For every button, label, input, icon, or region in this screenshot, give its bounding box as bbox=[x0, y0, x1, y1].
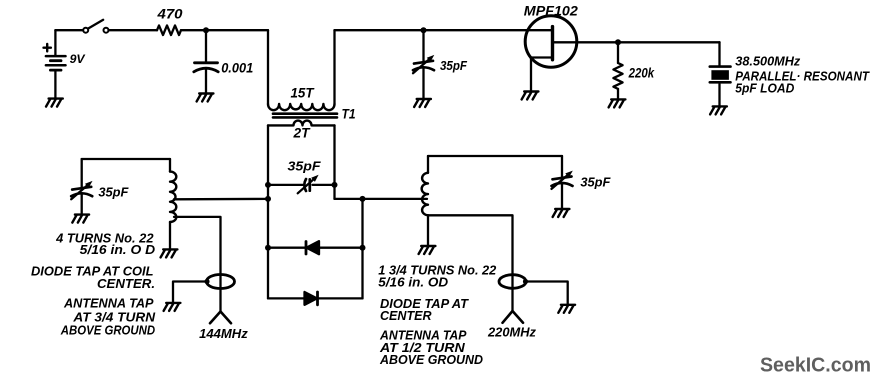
inductor L2 (220MHz coil) bbox=[422, 156, 428, 246]
wire transformer primary right lead bbox=[333, 30, 335, 104]
node dot upper-right bbox=[332, 182, 338, 188]
wire jog down bbox=[333, 185, 335, 199]
svg-text:MPF102: MPF102 bbox=[524, 3, 579, 18]
resistor R1 470 bbox=[157, 25, 181, 35]
ground (left ellipse) bbox=[164, 303, 181, 311]
svg-text:35pF: 35pF bbox=[288, 159, 322, 174]
wire antenna tap 144 bbox=[174, 217, 221, 312]
node blob (ellipse left) bbox=[204, 279, 209, 284]
antenna coupling loop (220) bbox=[499, 275, 526, 289]
node dot lower-left bbox=[265, 196, 271, 202]
wire ellipse right to ground bbox=[526, 282, 568, 305]
svg-text:38.500MHz: 38.500MHz bbox=[735, 54, 800, 69]
ground (right coil) bbox=[419, 246, 436, 254]
svg-text:220MHz: 220MHz bbox=[487, 324, 536, 339]
crystal Y1 bbox=[710, 67, 731, 107]
antenna symbol 220 bbox=[503, 311, 524, 323]
transformer T1 primary 15T winding bbox=[268, 104, 335, 110]
wire right tank top rail bbox=[428, 155, 562, 157]
ground (crystal) bbox=[710, 106, 727, 114]
svg-text:0.001: 0.001 bbox=[221, 61, 253, 76]
svg-text:5/16 in. OD: 5/16 in. OD bbox=[378, 275, 448, 290]
node blob (ellipse right) bbox=[523, 279, 528, 284]
wire top rail to gate bbox=[335, 29, 553, 31]
svg-text:2T: 2T bbox=[292, 126, 311, 141]
battery B1 9V bbox=[44, 30, 66, 98]
wire down to transformer primary left bbox=[267, 30, 269, 104]
wire left vertical down bbox=[267, 185, 269, 299]
svg-text:9V: 9V bbox=[70, 54, 86, 66]
svg-text:ABOVE GROUND: ABOVE GROUND bbox=[379, 352, 484, 367]
wire switch to resistor bbox=[109, 29, 158, 31]
node dot diode row left bbox=[265, 245, 271, 251]
wire drain rail bbox=[553, 41, 720, 43]
wire diode row 2 bbox=[268, 297, 363, 299]
ground (220k) bbox=[609, 99, 626, 107]
wire lower rail right segment (diode tap 220) bbox=[335, 198, 428, 200]
ground (source) bbox=[522, 92, 539, 100]
node junction dot (0.001) bbox=[203, 27, 209, 33]
wire ellipse left to ground bbox=[173, 282, 207, 303]
svg-text:5pF LOAD: 5pF LOAD bbox=[735, 80, 795, 95]
antenna coupling loop (144) bbox=[207, 275, 235, 289]
wire right vertical down bbox=[361, 199, 363, 299]
ground (left cap) bbox=[72, 215, 89, 223]
wire resistor to transformer corner bbox=[181, 29, 268, 31]
ground (left coil) bbox=[161, 249, 178, 257]
wire left tank top rail bbox=[82, 158, 170, 160]
variable capacitor C4 35pF (144MHz tank) bbox=[71, 159, 92, 215]
svg-text:5/16 in. O D: 5/16 in. O D bbox=[80, 242, 156, 257]
variable capacitor C2 35pF (top) bbox=[413, 30, 434, 99]
switch S1 bbox=[83, 20, 108, 33]
ground (right cap) bbox=[553, 209, 570, 217]
diode D1 bbox=[306, 241, 319, 254]
svg-text:CENTER.: CENTER. bbox=[97, 276, 155, 291]
transformer T1 core bbox=[273, 114, 337, 118]
diode D2 bbox=[305, 292, 318, 305]
inductor L1 (144MHz coil) bbox=[170, 159, 176, 249]
node junction dot (drain) bbox=[615, 39, 621, 45]
svg-text:ABOVE GROUND: ABOVE GROUND bbox=[60, 322, 156, 337]
svg-text:ANTENNA TAP: ANTENNA TAP bbox=[63, 296, 154, 311]
node junction dot (35pF top) bbox=[421, 27, 427, 33]
wire diode row 1 bbox=[268, 247, 363, 249]
antenna symbol 144 bbox=[210, 312, 231, 324]
svg-text:470: 470 bbox=[156, 7, 183, 22]
transistor Q1 MPF102 bbox=[525, 16, 577, 92]
wire secondary left side down bbox=[267, 125, 269, 184]
transformer T1 secondary 2T winding bbox=[268, 121, 335, 126]
variable capacitor C5 35pF (220MHz tank) bbox=[552, 156, 573, 209]
ground (0.001) bbox=[197, 94, 214, 102]
svg-text:35pF: 35pF bbox=[98, 185, 129, 200]
ground (35pF top) bbox=[414, 99, 431, 107]
svg-text:220k: 220k bbox=[628, 66, 656, 81]
svg-text:35pF: 35pF bbox=[440, 58, 468, 73]
svg-text:144MHz: 144MHz bbox=[199, 326, 248, 341]
wire to crystal bbox=[718, 42, 720, 65]
variable capacitor C3 35pF (middle) bbox=[298, 175, 319, 194]
resistor R2 220k bbox=[613, 42, 622, 99]
ground (battery) bbox=[46, 99, 63, 107]
wire upper tank rail right segment bbox=[313, 184, 335, 186]
svg-text:T1: T1 bbox=[342, 107, 356, 122]
svg-text:CENTER: CENTER bbox=[380, 308, 432, 323]
node dot diode row right bbox=[360, 245, 366, 251]
wire battery top to switch bbox=[55, 29, 83, 31]
svg-text:SeekIC.com: SeekIC.com bbox=[760, 355, 871, 377]
svg-text:15T: 15T bbox=[291, 86, 316, 101]
wire upper tank rail left segment bbox=[268, 184, 303, 186]
node dot lower-right bbox=[360, 196, 366, 202]
wire secondary right side down bbox=[333, 125, 335, 184]
wire antenna tap 220 bbox=[428, 215, 513, 311]
wire lower rail left segment (diode tap 144) bbox=[174, 198, 268, 201]
node dot upper-left bbox=[265, 182, 271, 188]
svg-text:35pF: 35pF bbox=[580, 175, 611, 190]
ground (right ellipse) bbox=[558, 305, 575, 313]
capacitor C1 0.001 bbox=[194, 30, 218, 93]
